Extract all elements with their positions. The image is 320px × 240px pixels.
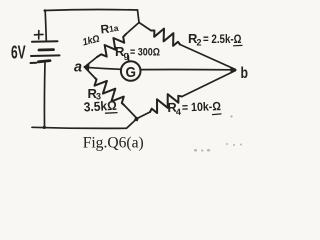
- wire R1 to apex: [126, 23, 139, 35]
- underline under ohm of R2 value: [234, 44, 243, 46]
- wire right drop (top wire to apex node): [138, 10, 140, 23]
- underline under ohm of 3.5k value: [106, 112, 118, 115]
- svg-text:2: 2: [197, 38, 202, 48]
- junction blob battery bottom wire: [43, 126, 46, 129]
- resistor R3 zigzag: [95, 78, 125, 105]
- battery: plate long 3: [31, 54, 60, 57]
- battery: plate short 2: [39, 48, 54, 51]
- node b arrowhead: [230, 67, 237, 74]
- wire left vertical (top to battery +): [45, 11, 46, 41]
- wire arm a to R3: [85, 67, 96, 78]
- svg-text:= 2.5k-Ω: = 2.5k-Ω: [203, 32, 242, 46]
- galvanometer G circle: [121, 61, 141, 81]
- wire galvanometer to node b: [141, 68, 232, 70]
- svg-text:1kΩ: 1kΩ: [82, 34, 101, 49]
- svg-text:a: a: [74, 59, 82, 76]
- wire R2 to node b: [180, 45, 236, 70]
- resistor R1 zigzag: [97, 34, 126, 57]
- battery: plate short bottom (-): [39, 61, 51, 62]
- svg-text:G: G: [126, 64, 137, 81]
- svg-text:6V: 6V: [11, 43, 26, 63]
- node a arrowhead: [83, 64, 89, 71]
- battery: - sign: [31, 62, 37, 64]
- wire bottom horizontal (battery - to bottom node): [32, 119, 137, 129]
- wire bottom node to R4: [137, 112, 150, 119]
- svg-text:= 300Ω: = 300Ω: [130, 47, 160, 59]
- wire node a to galvanometer: [85, 67, 121, 69]
- junction blob top-left corner: [44, 9, 47, 12]
- svg-text:3.5kΩ: 3.5kΩ: [83, 98, 117, 115]
- resistor R4 zigzag: [150, 94, 182, 113]
- wire R4 to node b: [182, 71, 236, 97]
- svg-text:g: g: [124, 50, 130, 60]
- underline under ohm of R4 value: [213, 113, 222, 116]
- svg-text:b: b: [241, 65, 249, 82]
- wire top horizontal (battery + to apex): [45, 9, 138, 12]
- galvanometer needle tick: [127, 56, 129, 62]
- wire battery - down to bottom wire: [43, 62, 46, 127]
- wire R3 to bottom node: [124, 105, 137, 119]
- svg-text:= 10k-Ω: = 10k-Ω: [182, 99, 222, 114]
- svg-text:1a: 1a: [108, 23, 119, 34]
- wire apex to R2: [139, 23, 151, 31]
- wire arm a to R1: [85, 57, 98, 67]
- battery 6V: plate long top (+): [32, 40, 58, 43]
- resistor R2 zigzag: [151, 29, 180, 46]
- bottom node junction blob: [134, 117, 139, 122]
- svg-text:Fig.Q6(a): Fig.Q6(a): [83, 134, 144, 151]
- battery: + sign: [35, 31, 44, 40]
- svg-text:4: 4: [176, 107, 181, 117]
